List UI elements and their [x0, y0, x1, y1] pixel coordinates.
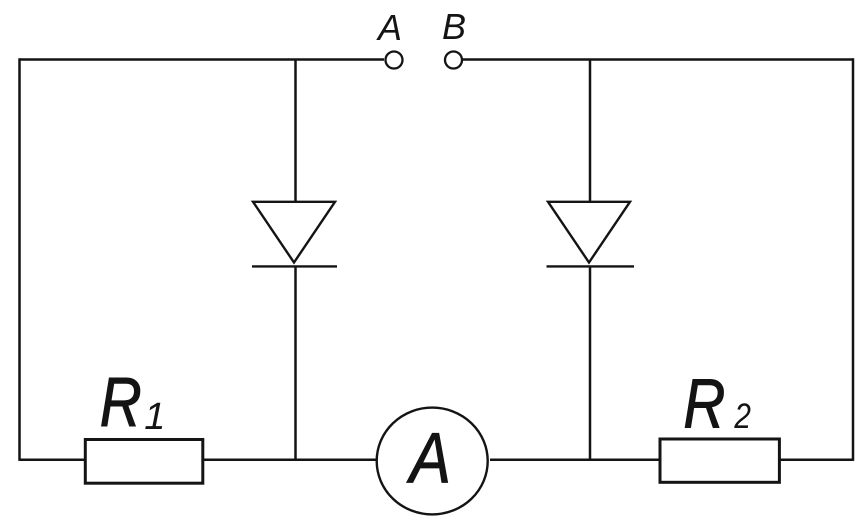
wire top-left segment: [20, 58, 385, 61]
terminal A: [386, 52, 403, 69]
wire right vertical: [852, 58, 855, 461]
wire diode D2 lower lead: [589, 266, 592, 459]
resistor R1: [85, 440, 203, 484]
svg-text:B: B: [442, 6, 466, 47]
wire top-right segment: [463, 58, 853, 61]
wire diode D1 lower lead: [294, 266, 297, 459]
svg-text:R: R: [100, 363, 142, 441]
svg-text:2: 2: [733, 397, 750, 436]
wire bottom segment 2: [203, 458, 376, 461]
wire diode D1 upper lead: [294, 60, 297, 203]
wire left vertical: [18, 58, 21, 461]
diode D2: [547, 202, 635, 267]
terminal B: [445, 52, 462, 69]
resistor R2: [660, 439, 779, 482]
svg-text:A: A: [376, 7, 402, 48]
diode D1: [252, 202, 337, 267]
svg-text:A: A: [406, 420, 451, 499]
wire bottom segment 4: [779, 458, 853, 461]
svg-text:R: R: [683, 364, 725, 442]
wire bottom segment 3: [490, 458, 660, 461]
ammeter U1: [377, 408, 488, 515]
wire diode D2 upper lead: [589, 60, 592, 203]
wire bottom segment 1: [20, 458, 86, 461]
svg-text:1: 1: [144, 396, 165, 438]
